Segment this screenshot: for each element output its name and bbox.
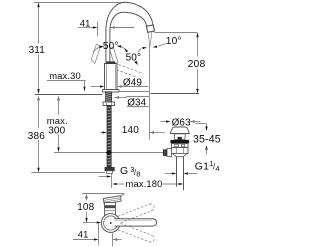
svg-text:35-45: 35-45 [193, 134, 221, 146]
svg-text:41: 41 [78, 229, 89, 240]
spout riser pipe [105, 30, 107, 62]
dimension 108 [77, 194, 94, 223]
svg-text:311: 311 [29, 45, 46, 56]
svg-text:4: 4 [215, 164, 219, 173]
svg-text:max.: max. [47, 115, 68, 126]
svg-text:10°: 10° [166, 36, 182, 47]
connection level line with node [54, 152, 163, 154]
handle tilted-left outline [91, 45, 100, 64]
flange level line right [119, 91, 149, 93]
svg-text:50°: 50° [126, 52, 142, 63]
basin clamp band [170, 140, 189, 144]
dimension 140 [100, 125, 165, 136]
faucet body [105, 64, 118, 90]
dimension max.30 [47, 70, 86, 91]
dimension 386 [28, 96, 45, 173]
svg-text:Ø34: Ø34 [127, 98, 146, 109]
10 degree annotation [138, 36, 181, 51]
top view spout tube [105, 203, 116, 217]
top view aerator tip [103, 196, 121, 204]
body inner lines [106, 65, 108, 89]
dimension diameter 49 [91, 77, 148, 88]
hose end level line [31, 172, 105, 174]
drain body [172, 144, 189, 154]
countertop line left [35, 94, 102, 96]
spout gooseneck outer arc [106, 2, 153, 31]
water stream lines [148, 33, 149, 47]
base flange [103, 90, 120, 93]
label G 3/8 [120, 165, 141, 179]
top reference line [34, 2, 127, 4]
handle tilted-right outline [110, 48, 118, 65]
dimension max.300 [47, 96, 68, 152]
dimension 41 bottom [73, 223, 122, 246]
swivel hub outer circle [101, 214, 120, 233]
threaded shank [106, 92, 112, 102]
dimension 208 [188, 33, 206, 94]
label G1 1/4 [195, 159, 220, 173]
dimension diameter 63 [161, 118, 201, 129]
aerator tip box [147, 25, 155, 32]
dimension max.180 [99, 174, 184, 189]
svg-text:41: 41 [80, 17, 91, 28]
svg-text:386: 386 [28, 131, 45, 142]
hub centre dot [110, 222, 112, 224]
node diamond [106, 150, 113, 155]
dimension 41 top [78, 17, 135, 36]
phantom lever upper [118, 204, 154, 223]
lever centre line with arrow to hub [83, 222, 98, 224]
svg-text:G: G [120, 165, 128, 177]
supply hose [107, 106, 111, 168]
line from spout tip to 208 dimension [155, 32, 198, 34]
dimension 311 [29, 3, 46, 94]
svg-text:G1: G1 [195, 161, 209, 173]
50 degree swing arc left [93, 47, 101, 52]
dimension diameter 34 [115, 96, 150, 108]
drain flange dome [170, 127, 189, 134]
leader arc for second 50 [125, 49, 126, 51]
drain tailpipe [177, 157, 184, 191]
svg-text:max.180: max.180 [126, 178, 163, 189]
svg-text:108: 108 [77, 202, 94, 213]
hose connector G3/8 [105, 167, 114, 173]
cartridge cap [106, 61, 116, 64]
dimension 35-45 [193, 124, 221, 155]
108 top reference line [82, 193, 124, 195]
G1 1/4 pointer arrows [165, 172, 198, 174]
mounting nut [103, 102, 115, 106]
countertop line right [151, 93, 200, 95]
svg-text:208: 208 [188, 59, 206, 70]
svg-text:50°: 50° [103, 41, 119, 52]
solid lever [115, 219, 157, 226]
drain side fitting [163, 149, 171, 157]
svg-text:300: 300 [48, 125, 65, 136]
swivel hub inner circle [104, 216, 118, 230]
phantom lever lower [118, 223, 154, 242]
spout gooseneck inner arc [110, 12, 147, 31]
drain body taper [173, 154, 187, 157]
phantom handle swing dashes [112, 65, 143, 78]
svg-text:max.30: max.30 [49, 70, 81, 81]
drain neck [174, 134, 185, 140]
svg-text:140: 140 [122, 125, 139, 136]
vertical reference line from spout outlet [149, 46, 151, 140]
